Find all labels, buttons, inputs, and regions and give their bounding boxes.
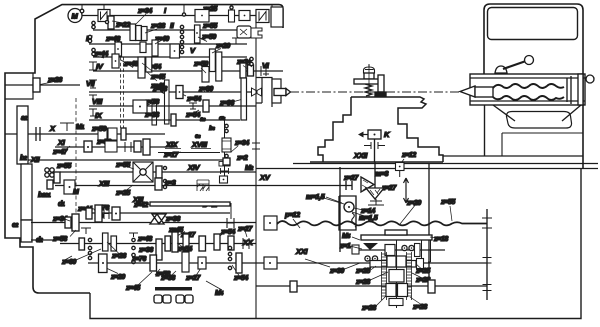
gear x202 on VI [202, 67, 209, 83]
svg-text:z=28: z=28 [412, 304, 427, 311]
svg-text:XIV: XIV [187, 163, 200, 172]
gear z=44 on XVII [86, 208, 92, 219]
box K on pyramid [368, 130, 381, 139]
shaft VI wire [93, 70, 283, 72]
box on I right [239, 11, 250, 21]
bearing marks right y260 [483, 258, 492, 264]
headstock box [470, 74, 585, 105]
ball column x182 [180, 25, 183, 28]
bearing T x85 y222 [81, 228, 91, 234]
svg-text:z=1: z=1 [339, 243, 351, 250]
H coupling on leadscrew [227, 218, 234, 228]
gear on III x140 [140, 42, 146, 53]
svg-text:K: K [384, 130, 390, 139]
gear w dot on II x194 [195, 25, 201, 43]
shaft X wire [5, 133, 165, 135]
svg-text:z=54: z=54 [220, 229, 235, 236]
bottom long shaft wire [88, 262, 487, 264]
clamp cross bar [354, 79, 383, 84]
lever handle [495, 66, 507, 73]
mid leaders [90, 152, 247, 237]
spindle shaft VII wire [89, 91, 256, 93]
gear pair b1c1 [54, 172, 60, 183]
column left edge lower [484, 105, 486, 156]
bearing T shaft VII left [89, 80, 97, 88]
shaft XVII wire [90, 212, 230, 214]
thrust bearing hatch [197, 180, 209, 191]
leadscrew box p12 [264, 216, 277, 230]
svg-text:z=34: z=34 [137, 8, 152, 15]
ball stack shaft III left [88, 35, 91, 38]
ball stack shaft IV left [92, 48, 95, 51]
table platform [361, 235, 432, 240]
svg-text:z=60: z=60 [61, 259, 76, 266]
svg-text:z=36: z=36 [165, 216, 180, 223]
bearing T shaft IV [89, 62, 97, 70]
svg-text:XXI: XXI [295, 247, 308, 256]
shaft XIII wire [55, 185, 256, 187]
bearing T x236 [232, 38, 240, 44]
maltese cross box on XIV [133, 162, 153, 182]
box gear with dot on VIII [133, 100, 147, 113]
shaft III wire [89, 43, 247, 45]
wire border drop x231 [230, 5, 232, 9]
column lower window [506, 112, 571, 129]
leadscrew gears z34 z58 [72, 214, 79, 231]
lever rod [503, 61, 526, 69]
svg-text:z=56: z=56 [155, 271, 170, 278]
svg-text:XII: XII [30, 155, 40, 164]
svg-text:z=54: z=54 [185, 112, 200, 119]
svg-text:z=54: z=54 [186, 96, 201, 103]
shaft IV wire [93, 56, 247, 58]
spindle nose cone [286, 89, 291, 96]
headstock block2 [272, 79, 281, 103]
upper gearbox leader wires [40, 21, 252, 153]
svg-text:z=3: z=3 [164, 180, 176, 187]
triple sliding block on II [130, 24, 136, 41]
elbow wire to H coupling [195, 204, 231, 220]
svg-text:XIII: XIII [98, 179, 110, 188]
clutch box right on shaft I [256, 10, 269, 23]
svg-text:M1: M1 [76, 124, 84, 131]
wire border drop above clutch [103, 5, 105, 10]
small sq x226 [223, 158, 230, 165]
svg-text:z=25: z=25 [415, 268, 430, 275]
ball z22 [105, 20, 108, 23]
XX gear tall pair left [103, 233, 109, 251]
gear XI x136 [134, 141, 141, 152]
z12 box [396, 163, 405, 171]
svg-text:z=55: z=55 [115, 162, 130, 169]
fork dashed guides [121, 57, 124, 128]
gear on mid shaft [290, 281, 297, 292]
machine bed top line 2 [256, 168, 598, 170]
clamp centre vertical [368, 64, 370, 97]
apron right wall [428, 163, 430, 280]
svg-text:z=12: z=12 [401, 152, 416, 159]
tall gear XI x145 [143, 139, 150, 155]
svg-text:XI: XI [57, 138, 66, 147]
M3 coupling [104, 208, 109, 219]
spindle cone clutch [252, 88, 262, 96]
gear x81 XX [79, 238, 85, 250]
overrunning clutch on II right [237, 26, 251, 38]
box pair on X [98, 128, 107, 140]
motor M [68, 9, 82, 23]
svg-text:m=1,5: m=1,5 [359, 215, 378, 222]
svg-text:z=80: z=80 [198, 86, 213, 93]
shaft XXII vertical [374, 139, 376, 162]
svg-text:XX: XX [242, 238, 254, 247]
ball stack x230 [228, 246, 231, 249]
inner wall step left [5, 73, 33, 99]
clutch H [346, 181, 352, 190]
big gear z20 [99, 254, 108, 273]
column ledge notch [502, 133, 583, 156]
svg-text:XIX: XIX [165, 140, 178, 149]
shaft II wire [93, 29, 256, 31]
svg-text:z=17: z=17 [163, 152, 179, 159]
svg-text:z=56: z=56 [91, 126, 106, 133]
bearing T x193 [189, 103, 197, 109]
assorted leader wires [317, 196, 452, 306]
lever ball [525, 56, 534, 65]
svg-text:z=30: z=30 [329, 268, 344, 275]
bearing x256 y146 [252, 140, 260, 152]
coupling X x33 [36, 127, 40, 141]
svg-text:d1: d1 [58, 201, 65, 208]
shaft XVI leadscrew left [31, 222, 256, 224]
bearing marks right [482, 218, 492, 228]
main spindle axis dash-dot [290, 91, 462, 93]
svg-text:z=55: z=55 [56, 163, 71, 170]
svg-text:c2: c2 [12, 222, 19, 229]
left change gears a2 [17, 106, 28, 164]
svg-text:z=45: z=45 [125, 285, 140, 292]
svg-text:z=68: z=68 [152, 86, 167, 93]
left change gear d2 [21, 220, 32, 242]
svg-text:z=20: z=20 [110, 274, 125, 281]
spindle end plate [578, 74, 583, 105]
svg-text:z=38: z=38 [144, 112, 159, 119]
ball stack left XIII [45, 168, 49, 172]
bottom-left leader wires [62, 218, 241, 290]
shaft I wire [82, 15, 256, 17]
double arrow [404, 178, 409, 203]
svg-text:VIII: VIII [92, 97, 103, 106]
gear small on mid shaft r [428, 280, 435, 293]
tall gear pair x210 IV-VI [210, 49, 216, 72]
bottom gear column hatches [382, 252, 412, 300]
ball stack x251 [250, 57, 253, 60]
svg-text:z=54: z=54 [233, 275, 248, 282]
box gear y263 x265 [264, 257, 277, 269]
svg-text:z=18: z=18 [433, 236, 448, 243]
left change gears c2 [21, 164, 32, 220]
column leg right diagonal [562, 105, 581, 121]
ball column x90 [88, 238, 91, 241]
stub shaft XIX-XVIII wire [158, 152, 220, 154]
gear on x226 [222, 138, 231, 152]
clamp right post [378, 75, 384, 92]
tall gear block VIII x152 [152, 99, 157, 125]
svg-text:z=42: z=42 [133, 202, 148, 209]
muff shape right [251, 28, 262, 38]
ball x184 [182, 13, 185, 16]
svg-text:z=14: z=14 [360, 208, 375, 215]
balls x226 [225, 124, 228, 127]
gear on VIII x205 [203, 100, 209, 112]
roller pair 1 [154, 295, 162, 303]
spindle nose cylinder [274, 89, 286, 96]
svg-text:M4: M4 [215, 290, 223, 297]
end knob circle [586, 75, 594, 83]
gear XIII x157 w balls [155, 178, 162, 190]
box w dot x170 on III [170, 44, 180, 58]
vertical shaft XVIII x224 [224, 120, 226, 176]
gear y263 x150 [150, 255, 157, 271]
gear block z25 on I [195, 10, 209, 23]
svg-text:z=20: z=20 [215, 43, 230, 50]
universal joint squares [219, 162, 224, 167]
svg-text:z=20: z=20 [406, 200, 421, 207]
svg-text:z=55: z=55 [202, 23, 217, 30]
box XI x105 [105, 141, 117, 152]
column window rounded rect [488, 8, 578, 40]
tall gear block VIII x165 [165, 80, 170, 124]
ball XIV [163, 166, 166, 169]
XX gear cluster [156, 239, 162, 260]
inner feedbox frame [90, 280, 256, 282]
bearing T X left [60, 123, 74, 131]
coupling小 x356 [352, 245, 359, 254]
gear y263 x237 [236, 253, 242, 273]
z25 bar [370, 261, 416, 268]
clamp body box [364, 73, 374, 79]
bearing T shaft IX left [89, 109, 97, 116]
pyramid base line [310, 161, 443, 163]
svg-text:z=28: z=28 [150, 23, 165, 30]
friction clutch box on motor shaft [98, 10, 110, 22]
tall gear pair x138 IV-VI [138, 57, 145, 78]
vertical shaft to bevel [374, 162, 376, 188]
hob worm wavy profile top [493, 84, 564, 88]
arbor cylinder [475, 87, 493, 97]
wire border drop x184 [183, 5, 185, 13]
bevel bearing below [368, 199, 384, 205]
leader z34 [132, 14, 146, 28]
XXI shaft wire [355, 249, 445, 251]
gear w dot on III x115 [115, 42, 122, 56]
svg-text:z=28: z=28 [355, 279, 370, 286]
svg-text:z=54: z=54 [177, 246, 192, 253]
headstock inner bottom line [470, 100, 585, 102]
arrow at box K [363, 134, 368, 136]
gauge arrows [364, 142, 385, 149]
svg-text:b1c1: b1c1 [38, 192, 51, 199]
svg-text:b2: b2 [20, 155, 27, 162]
box K dot [374, 134, 376, 136]
svg-text:z=55: z=55 [440, 199, 455, 206]
leadscrew wavy wire [277, 221, 487, 225]
central vertical [396, 240, 398, 308]
clamp right foot [375, 92, 386, 96]
end gear box shaft I [271, 7, 283, 27]
column leg left diagonal [493, 105, 515, 121]
gear w dot on IV x112 [112, 54, 119, 68]
headstock inner top line [470, 77, 585, 79]
XXI cluster gears [385, 245, 395, 256]
shaft XII wire [28, 159, 230, 161]
shaft z=26 stub [5, 84, 80, 86]
vertical under z12 box [399, 171, 401, 178]
narrow gear on I [229, 10, 235, 22]
bearing VI right [263, 66, 269, 76]
gearbox housing outline top-left with bevel [5, 5, 283, 293]
hanging box x223 [220, 176, 228, 183]
svg-text:z=48: z=48 [123, 61, 138, 68]
ball column x133 [132, 238, 135, 241]
bottom mid shaft wire [256, 285, 487, 287]
shaft XV wire [256, 185, 346, 187]
centre dead centre cone [460, 86, 475, 97]
underline XIX [165, 148, 211, 150]
ball top left [80, 9, 84, 13]
svg-text:z=48: z=48 [137, 236, 152, 243]
shaft XIV wire [60, 171, 256, 173]
svg-text:z=28: z=28 [361, 305, 376, 312]
svg-text:z=26: z=26 [111, 253, 126, 260]
bearing T x133 [129, 233, 138, 237]
svg-text:z=26: z=26 [47, 77, 62, 84]
gear on X x123 [121, 128, 126, 140]
svg-text:M5: M5 [342, 233, 350, 240]
svg-text:XXII: XXII [353, 151, 368, 160]
svg-text:p=12: p=12 [284, 212, 300, 219]
balls left xxi [365, 256, 370, 261]
gear z=96 on spindle [241, 78, 247, 120]
worm squiggle under circle [352, 213, 357, 227]
gear z=26 [33, 78, 40, 92]
right vertical feed shaft [486, 209, 488, 300]
leader z=12 [399, 159, 404, 166]
shaft XI wire [55, 146, 175, 148]
svg-text:z=27: z=27 [343, 175, 359, 182]
ball x231 [230, 6, 233, 9]
cone clutch on VI [240, 63, 246, 78]
svg-text:z=34: z=34 [234, 140, 249, 147]
svg-text:z=25: z=25 [115, 190, 130, 197]
worm dark [363, 243, 378, 250]
svg-text:z=27: z=27 [237, 226, 253, 233]
gear w dot x115 [112, 207, 120, 220]
shaft z58 stub [31, 239, 62, 241]
bracket frame right [422, 240, 431, 262]
gear z=76 on XVII [95, 205, 102, 222]
column underline [443, 155, 583, 157]
worm triangles [150, 214, 166, 224]
hob worm wavy profile bottom [493, 96, 564, 100]
m15 circle [344, 202, 354, 212]
H coupling XX [243, 238, 249, 249]
gear XIV x158 [156, 166, 162, 178]
svg-text:XV: XV [259, 173, 271, 182]
bevel housing frame [339, 196, 356, 230]
shaft IX wire [89, 119, 240, 121]
roller pair 2 [176, 295, 184, 303]
stepped pyramid knee [318, 97, 443, 162]
gear pair on IX x155 [171, 114, 176, 126]
headstock block [256, 78, 272, 108]
svg-text:z=2: z=2 [236, 155, 248, 162]
shaft VIII wire [89, 105, 256, 107]
svg-text:a2: a2 [21, 115, 28, 122]
gear y263 x183 tall [182, 252, 189, 272]
svg-text:M: M [72, 12, 79, 21]
thick bar [155, 287, 192, 291]
svg-text:z=76: z=76 [131, 256, 146, 263]
column gears [387, 256, 396, 267]
hob right bracket [567, 76, 571, 104]
shaft XX wire [60, 243, 256, 245]
machine bed top line 1 [293, 163, 598, 165]
gear z=54 on spindle [176, 86, 183, 99]
H coupling VI [256, 66, 261, 76]
gear on III x152 [152, 40, 158, 56]
H coupling XI [125, 142, 131, 152]
bottom frame [90, 168, 581, 319]
svg-text:z=27: z=27 [185, 275, 201, 282]
bearing marks right y288 [483, 285, 492, 291]
machine column outline right [484, 4, 583, 168]
svg-text:z=45: z=45 [150, 74, 165, 81]
box on XIII x64 [64, 180, 75, 194]
balls x182 low [180, 45, 183, 48]
bearing T shaft VIII left [89, 95, 97, 102]
clamp fixture on pyramid : knob [364, 65, 375, 74]
wire border drop x272 [271, 5, 273, 8]
gear y263 x199 w dot [198, 257, 206, 269]
apron left wall [339, 167, 341, 252]
svg-text:XVIII: XVIII [191, 140, 208, 149]
svg-text:VII: VII [86, 79, 95, 88]
svg-text:m=3: m=3 [375, 171, 389, 178]
svg-text:z=47: z=47 [52, 149, 68, 156]
clamp spring [365, 84, 372, 96]
small box right of bar [417, 259, 424, 269]
rack bar [150, 202, 230, 206]
wire border drop left [81, 5, 83, 17]
svg-text:z=36: z=36 [138, 247, 153, 254]
leader z34r [231, 146, 238, 152]
gear z=22 on II [108, 16, 114, 29]
gear w dot XI x88 [84, 141, 92, 152]
svg-text:M2: M2 [245, 165, 253, 172]
bevel gear pair [361, 177, 374, 192]
inner partition wire [255, 10, 257, 318]
ball stack shaft II left [92, 21, 95, 24]
